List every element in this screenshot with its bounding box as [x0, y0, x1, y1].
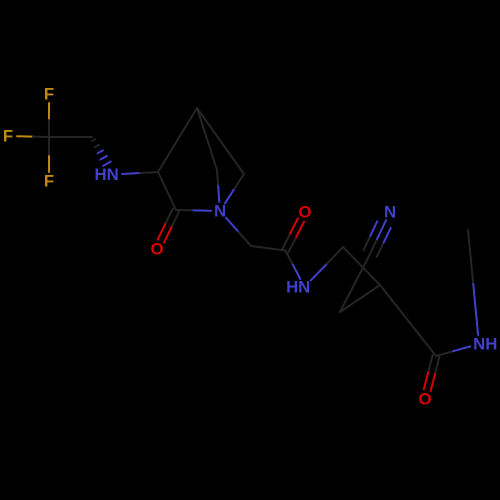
bond N3-C2 [311, 247, 343, 281]
bond N2-C8 [225, 174, 244, 203]
label O1 [150, 240, 163, 259]
svg-text:F: F [44, 172, 54, 191]
bond C3r-C4r [340, 285, 380, 312]
double bond C5r=O3 [424, 355, 440, 391]
bond C-F2 [17, 135, 49, 138]
bond C5r-N5 [436, 346, 470, 356]
hashed wedge CH2-N1 [92, 139, 111, 166]
svg-text:N: N [214, 202, 226, 221]
double bond C=O2 [282, 218, 304, 252]
triple bond C#N4 [363, 220, 390, 258]
label NH5 [473, 335, 497, 354]
svg-text:NH: NH [473, 335, 497, 354]
svg-text:N: N [384, 203, 396, 222]
label F1 [44, 85, 54, 104]
svg-text:O: O [418, 390, 431, 409]
svg-text:O: O [150, 240, 163, 259]
label N2 [214, 202, 226, 221]
double bond C3=O1 [158, 209, 179, 243]
svg-text:F: F [3, 127, 13, 146]
bond C-F3 [48, 137, 50, 172]
label O3 [418, 390, 431, 409]
bond C7-C6 inner [197, 108, 217, 170]
svg-text:O: O [298, 203, 311, 222]
bond N1-C4 [122, 172, 158, 174]
bond C8-C7 bridge [197, 108, 244, 174]
bond C2-C3r [343, 247, 380, 285]
svg-text:F: F [44, 85, 54, 104]
bond C3r-C5r long [380, 285, 436, 356]
bond C4-C3 [158, 172, 176, 210]
bond C-F1 [48, 103, 50, 137]
label N4 nitrile [384, 203, 396, 222]
label O2 [298, 203, 311, 222]
svg-text:HN: HN [286, 278, 310, 297]
bond C4r-C nitrile [340, 258, 368, 312]
bond CH2-C amide [251, 246, 286, 251]
bond N2-CH2 chain [226, 218, 251, 246]
label HN1 [94, 165, 118, 184]
bond C7-C4 bridge [158, 108, 197, 172]
label HN3 [286, 278, 310, 297]
label F3 [44, 172, 54, 191]
bond C-N3 [286, 251, 301, 280]
bond N5-C6r long [468, 230, 478, 335]
svg-text:HN: HN [94, 165, 118, 184]
label F2 [3, 127, 13, 146]
bond C3-N2 [176, 209, 211, 212]
bond CF3-CH2 [49, 136, 92, 138]
bond C6-N2 inner [217, 170, 219, 202]
